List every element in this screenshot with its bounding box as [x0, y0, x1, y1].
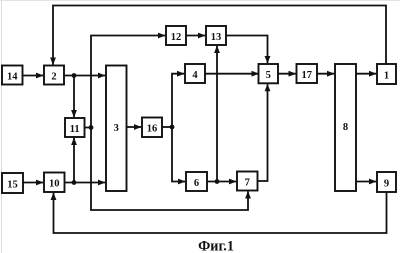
wire: block 12 to block 13	[186, 35, 205, 37]
svg-text:12: 12	[171, 32, 182, 43]
svg-text:14: 14	[7, 71, 18, 82]
block 17	[297, 64, 318, 83]
block 6	[186, 172, 207, 191]
node: junction on wire 10-3	[72, 180, 77, 185]
block 1	[377, 64, 396, 84]
wire: block 7 right then up into block 5 bottom	[258, 84, 268, 181]
svg-text:2: 2	[51, 71, 56, 82]
block 4	[185, 64, 205, 83]
block 5	[259, 64, 279, 83]
block 9	[377, 172, 396, 192]
block 10	[44, 173, 65, 193]
node: junction right of block 11	[89, 125, 94, 130]
svg-text:4: 4	[192, 70, 198, 81]
svg-text:5: 5	[266, 70, 271, 81]
wire: block 5 to block 17	[278, 73, 296, 75]
wire: trunk up then right into block 4	[172, 74, 184, 127]
wire: junction up into block 13 bottom	[216, 46, 218, 182]
svg-text:16: 16	[147, 124, 158, 135]
wire: block 4 to block 5	[205, 73, 259, 75]
svg-text:17: 17	[301, 70, 312, 81]
node: junction on wire 6-7	[215, 179, 220, 184]
block 3 (tall)	[106, 66, 127, 192]
svg-text:8: 8	[343, 122, 348, 133]
svg-text:6: 6	[194, 178, 199, 189]
wire: block 8 to block 9	[356, 181, 376, 183]
block 7	[237, 172, 258, 191]
node: junction right of block 16	[170, 125, 175, 130]
wire: block 13 right then down into block 5 top	[226, 36, 268, 64]
block 11	[65, 118, 85, 137]
svg-text:7: 7	[245, 177, 250, 188]
block 12	[166, 26, 186, 45]
wire: block 2 to block 3	[64, 75, 105, 77]
svg-text:9: 9	[384, 178, 389, 189]
svg-text:1: 1	[384, 70, 389, 81]
wire: block 3 to block 16	[127, 126, 142, 128]
svg-text:15: 15	[7, 179, 18, 190]
block 16	[142, 118, 162, 138]
wire: junction down and along bottom into block 7 bottom	[91, 128, 248, 211]
block 13	[206, 26, 226, 45]
wire: block 16 output to trunk junction	[162, 126, 172, 128]
wire: junction up into block 11 bottom	[73, 138, 75, 183]
block 2	[44, 66, 64, 85]
wire: block 15 to block 10	[23, 182, 43, 184]
wire: feedback block 9 bottom to block 10 bottom	[54, 192, 387, 233]
svg-text:Фиг.1: Фиг.1	[198, 239, 234, 253]
wire: block 6 to block 7	[207, 181, 236, 183]
block 8 (tall)	[335, 64, 356, 191]
wire: block 14 to block 2	[23, 75, 43, 77]
svg-text:10: 10	[49, 179, 60, 190]
svg-text:13: 13	[211, 32, 222, 43]
svg-text:11: 11	[70, 124, 80, 135]
wire: block 10 to block 3	[65, 182, 106, 184]
node: junction on wire 2-3	[72, 73, 77, 78]
wire: block 11 output to junction then up to block 12	[85, 36, 166, 128]
wire: junction down into block 11 top	[73, 76, 75, 118]
wire: trunk down then right into block 6	[172, 127, 185, 182]
block 15	[2, 173, 23, 193]
svg-text:3: 3	[114, 123, 119, 134]
block 14	[2, 66, 23, 85]
wire: block 8 to block 1	[356, 73, 376, 75]
wire: block 17 to block 8	[317, 73, 334, 75]
wire: feedback from block 1 top to block 2 top	[53, 6, 386, 65]
